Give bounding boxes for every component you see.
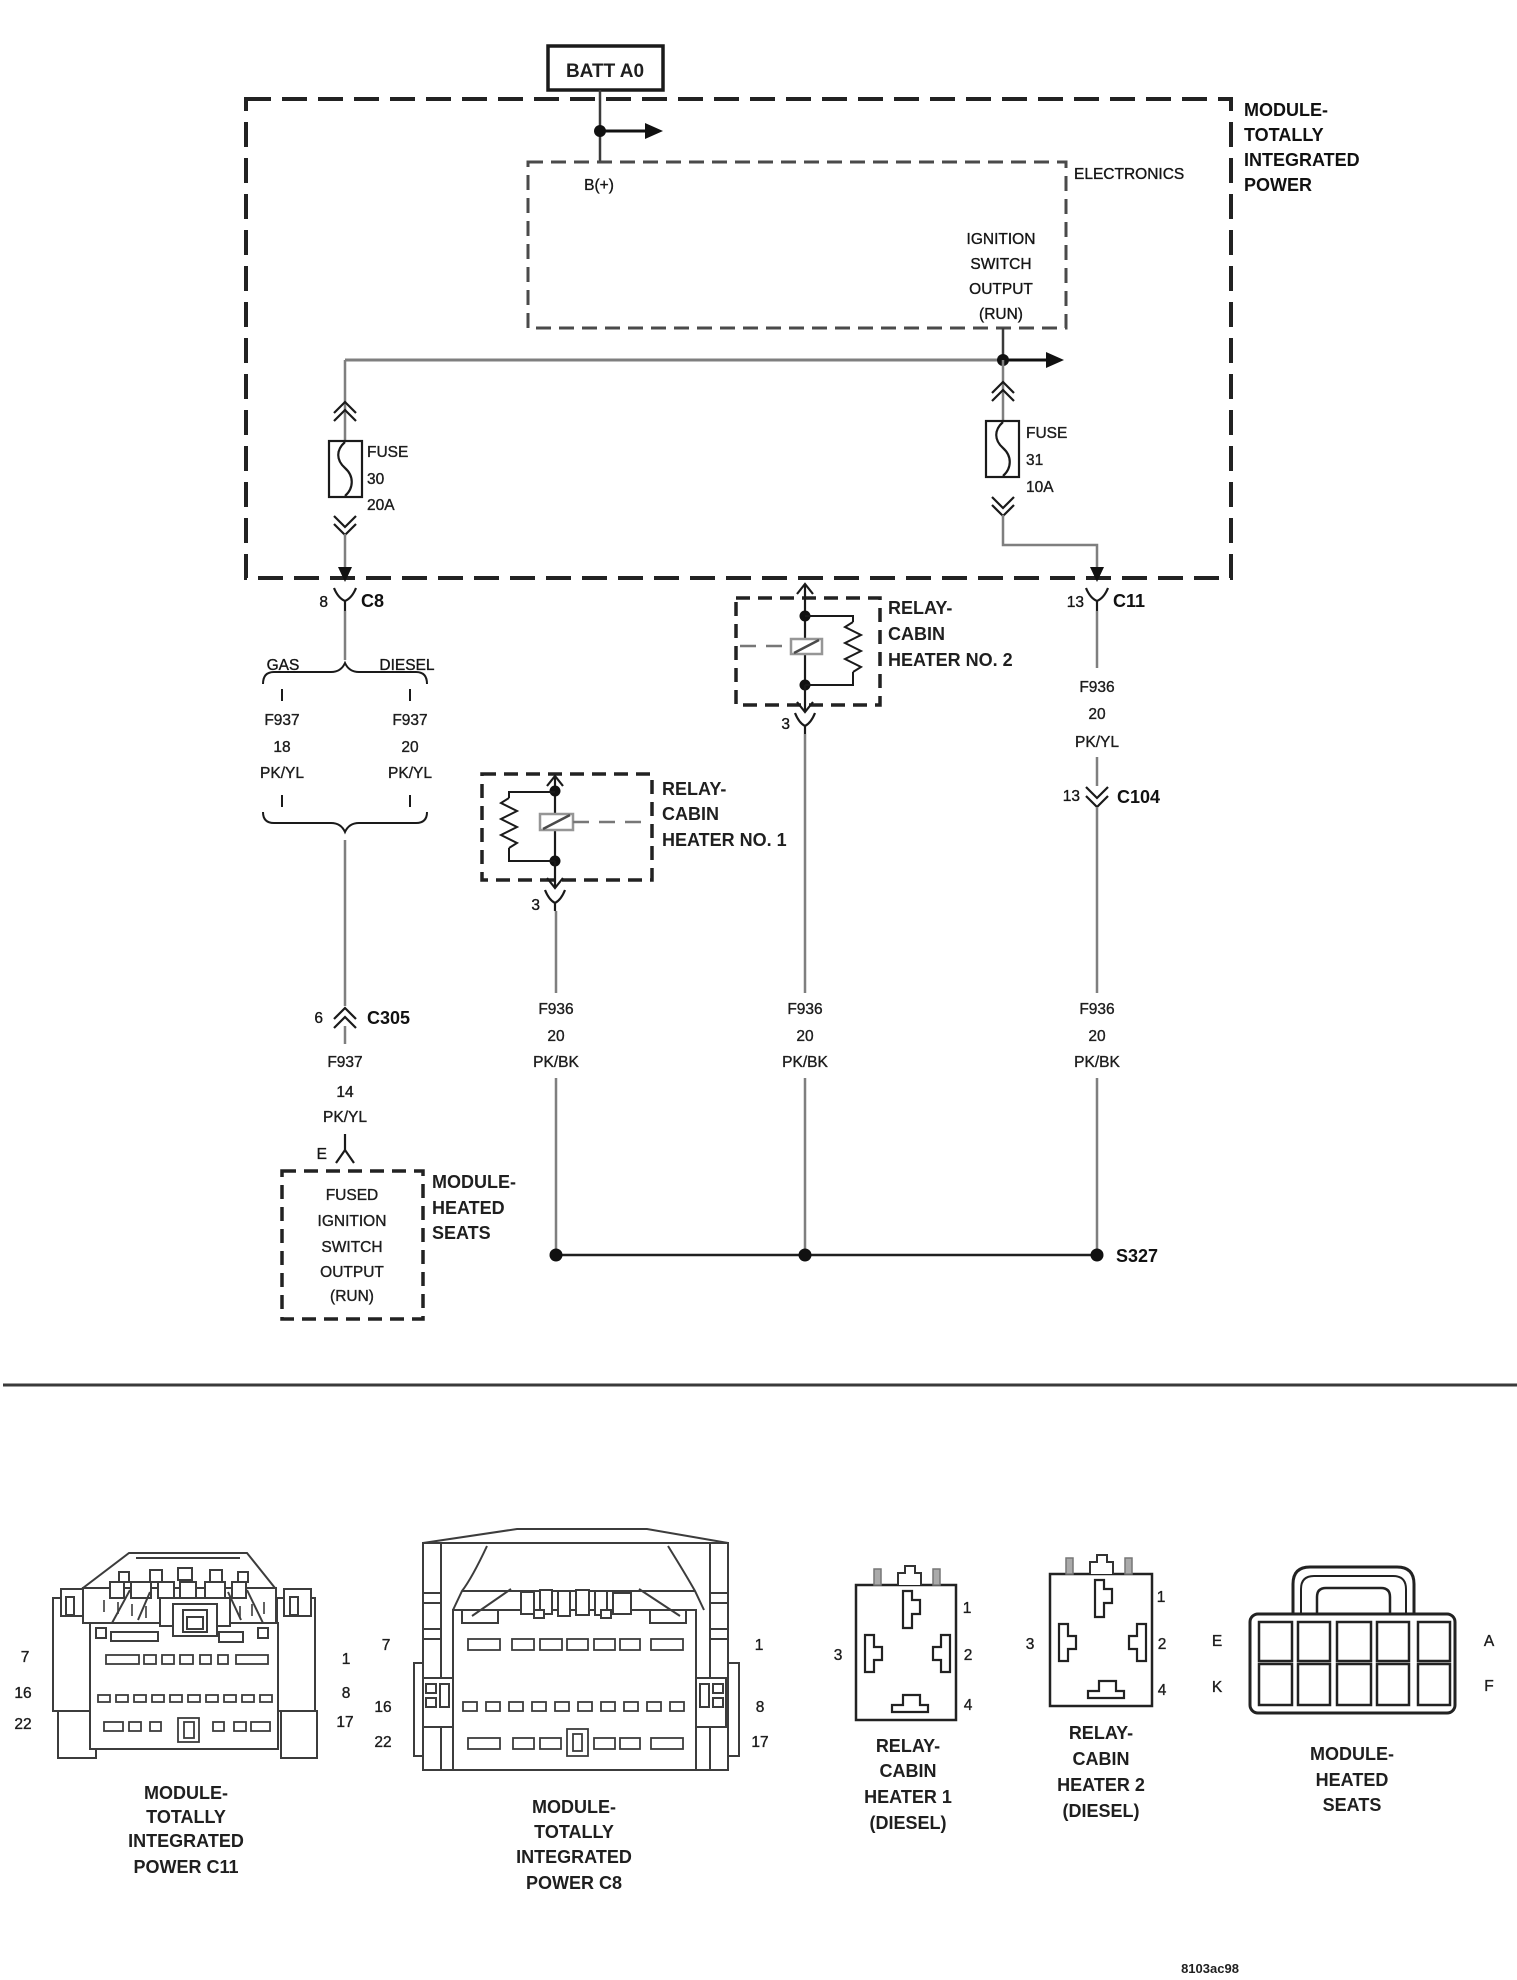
wire label F936 20 PK/BK (C104 leg) [1074, 1001, 1120, 1071]
relay 2 arrow up [797, 584, 813, 616]
svg-text:7: 7 [382, 1637, 391, 1654]
relay 2 connector pin 3 [781, 713, 815, 734]
svg-text:31: 31 [1026, 452, 1043, 469]
relay 1 connector pin 3 [531, 890, 565, 914]
value label FUSE 30 20A [367, 444, 408, 514]
chevron connector below fuse 31 [992, 497, 1014, 516]
svg-text:20: 20 [401, 739, 419, 756]
svg-text:POWER C11: POWER C11 [133, 1857, 238, 1877]
svg-text:RELAY-: RELAY- [1069, 1723, 1133, 1743]
separator line between sections [3, 1384, 1517, 1387]
svg-text:(DIESEL): (DIESEL) [869, 1813, 946, 1833]
svg-text:3: 3 [834, 1647, 843, 1664]
svg-text:PK/BK: PK/BK [533, 1054, 579, 1071]
caption RELAY-CABIN HEATER 1 (DIESEL) [864, 1736, 952, 1833]
svg-text:PK/YL: PK/YL [323, 1109, 367, 1126]
wire label F936 20 PK/BK (relay 2 leg) [782, 1001, 828, 1071]
connector view MODULE-TOTALLY INTEGRATED POWER C11 [53, 1553, 317, 1758]
fuse 31 [986, 421, 1019, 477]
module TIPM dashed box [246, 99, 1231, 578]
svg-text:HEATED: HEATED [432, 1198, 505, 1218]
caption MODULE-TOTALLY INTEGRATED POWER C8 [516, 1797, 632, 1893]
svg-text:8: 8 [756, 1699, 765, 1716]
relay 1 arrow down [547, 861, 563, 888]
wire fuse 30 to C8 [344, 534, 347, 574]
connector C8 pin 8 [319, 588, 384, 611]
svg-text:TOTALLY: TOTALLY [146, 1807, 226, 1827]
electronics dashed box [528, 162, 1066, 328]
svg-text:RELAY-: RELAY- [662, 779, 726, 799]
svg-text:6: 6 [314, 1010, 323, 1027]
fused ignition switch output dashed box [282, 1171, 423, 1319]
svg-text:CABIN: CABIN [880, 1761, 937, 1781]
svg-text:INTEGRATED: INTEGRATED [516, 1847, 632, 1867]
svg-text:INTEGRATED: INTEGRATED [128, 1831, 244, 1851]
connector view MODULE-HEATED SEATS [1250, 1567, 1455, 1713]
label RELAY-CABIN HEATER NO. 1 [662, 779, 787, 850]
svg-text:F937: F937 [327, 1054, 362, 1071]
splice bus wire [556, 1254, 1097, 1257]
label FUSED IGNITION SWITCH OUTPUT (RUN) [318, 1187, 387, 1305]
svg-text:PK/YL: PK/YL [388, 765, 432, 782]
caption RELAY-CABIN HEATER 2 (DIESEL) [1057, 1723, 1145, 1821]
svg-text:SWITCH: SWITCH [321, 1239, 382, 1256]
svg-text:16: 16 [14, 1685, 31, 1702]
wire C104 leg to splice [1096, 1078, 1099, 1255]
relay 1 junction bottom [550, 856, 561, 867]
svg-text:IGNITION: IGNITION [967, 231, 1036, 248]
svg-text:SEATS: SEATS [1323, 1795, 1382, 1815]
wire label F936 20 PK/BK (relay 1 leg) [533, 1001, 579, 1071]
svg-text:MODULE-: MODULE- [1244, 100, 1328, 120]
svg-text:E: E [1212, 1633, 1222, 1650]
wire fuse 31 to C11 [1003, 515, 1097, 574]
chevron connector above fuse 30 [334, 402, 356, 421]
svg-text:13: 13 [1067, 594, 1084, 611]
svg-text:(RUN): (RUN) [979, 306, 1023, 323]
label MODULE-TOTALLY INTEGRATED POWER [1244, 100, 1360, 195]
tick gas wire lower [281, 795, 283, 807]
svg-text:4: 4 [964, 1697, 973, 1714]
svg-text:20A: 20A [367, 497, 395, 514]
svg-text:16: 16 [374, 1699, 391, 1716]
svg-text:4: 4 [1158, 1682, 1167, 1699]
svg-text:1: 1 [755, 1637, 764, 1654]
svg-text:HEATER NO. 1: HEATER NO. 1 [662, 830, 787, 850]
svg-text:HEATED: HEATED [1316, 1770, 1389, 1790]
relay 1 junction top [550, 786, 561, 797]
svg-text:PK/YL: PK/YL [260, 765, 304, 782]
battery feed box BATT A0 [548, 46, 663, 90]
svg-text:8103ac98: 8103ac98 [1181, 1961, 1239, 1976]
value label FUSE 31 10A [1026, 425, 1067, 496]
svg-text:F937: F937 [392, 712, 427, 729]
svg-text:E: E [317, 1146, 327, 1163]
svg-text:RELAY-: RELAY- [876, 1736, 940, 1756]
svg-text:20: 20 [1088, 706, 1106, 723]
svg-text:INTEGRATED: INTEGRATED [1244, 150, 1360, 170]
svg-text:MODULE-: MODULE- [1310, 1744, 1394, 1764]
svg-text:1: 1 [1157, 1589, 1166, 1606]
label RELAY-CABIN HEATER NO. 2 [888, 598, 1013, 670]
connector pin E into heated seats module [317, 1134, 354, 1163]
pin labels relay cabin heater 1 [834, 1600, 973, 1714]
pin labels C8 connector [374, 1637, 768, 1751]
svg-text:MODULE-: MODULE- [144, 1783, 228, 1803]
svg-text:SWITCH: SWITCH [970, 256, 1031, 273]
relay 2 coil branch wire [804, 616, 806, 685]
chevron connector above fuse 31 [992, 382, 1014, 401]
svg-text:TOTALLY: TOTALLY [1244, 125, 1324, 145]
svg-text:20: 20 [547, 1028, 565, 1045]
svg-text:17: 17 [751, 1734, 768, 1751]
brace split GAS/DIESEL [263, 663, 427, 684]
wire label F936 20 PK/YL [1075, 679, 1119, 751]
svg-text:CABIN: CABIN [888, 624, 945, 644]
svg-text:3: 3 [531, 897, 540, 914]
svg-text:(DIESEL): (DIESEL) [1062, 1801, 1139, 1821]
svg-text:HEATER NO. 2: HEATER NO. 2 [888, 650, 1013, 670]
wire label F937 20 PK/YL (diesel) [388, 712, 432, 782]
svg-text:22: 22 [14, 1716, 31, 1733]
splice junction left [550, 1249, 563, 1262]
junction ignition feed [997, 354, 1009, 366]
wire relay 1 leg to splice [555, 1078, 558, 1255]
svg-text:20: 20 [1088, 1028, 1106, 1045]
caption MODULE-HEATED SEATS [1310, 1744, 1394, 1815]
connector view RELAY-CABIN HEATER 2 [1050, 1555, 1152, 1706]
arrow off-page right from battery junction [600, 123, 663, 139]
brace merge below [263, 812, 427, 832]
arrow off-page right from ignition junction [1003, 352, 1064, 368]
connector C11 pin 13 [1067, 588, 1145, 611]
tick diesel wire lower [409, 795, 411, 807]
svg-text:CABIN: CABIN [1073, 1749, 1130, 1769]
connector C305 pin 6 [314, 1008, 410, 1044]
svg-text:18: 18 [273, 739, 290, 756]
svg-text:HEATER 1: HEATER 1 [864, 1787, 952, 1807]
svg-text:7: 7 [21, 1649, 30, 1666]
svg-text:F936: F936 [538, 1001, 573, 1018]
svg-text:PK/YL: PK/YL [1075, 734, 1119, 751]
svg-text:IGNITION: IGNITION [318, 1213, 387, 1230]
wire horizontal ignition feed [345, 359, 1003, 362]
svg-text:PK/BK: PK/BK [1074, 1054, 1120, 1071]
connector C104 pin 13 [1063, 787, 1160, 807]
svg-text:30: 30 [367, 471, 385, 488]
svg-text:2: 2 [1158, 1636, 1167, 1653]
wire relay 2 leg to splice [804, 1078, 807, 1255]
svg-text:22: 22 [374, 1734, 391, 1751]
label IGNITION SWITCH OUTPUT (RUN) [967, 231, 1036, 323]
svg-text:F: F [1484, 1678, 1493, 1695]
svg-text:3: 3 [1026, 1636, 1035, 1653]
wire BATT A0 to electronics B(+) [599, 90, 602, 162]
relay 2 junction bottom [800, 680, 811, 691]
svg-text:OUTPUT: OUTPUT [969, 281, 1033, 298]
relay 1 arrow up [547, 776, 563, 791]
relay cabin heater no.1 dashed box [482, 774, 652, 880]
svg-text:13: 13 [1063, 788, 1080, 805]
tick gas wire [281, 689, 283, 701]
svg-text:3: 3 [781, 716, 790, 733]
wire down to fuse 30 [344, 360, 347, 441]
chevron connector below fuse 30 [334, 516, 356, 535]
wire relay 2 down [804, 734, 807, 993]
svg-text:20: 20 [796, 1028, 814, 1045]
svg-text:TOTALLY: TOTALLY [534, 1822, 614, 1842]
wire junction down to fuse 31 [1002, 360, 1005, 421]
svg-text:ELECTRONICS: ELECTRONICS [1074, 166, 1184, 183]
svg-text:S327: S327 [1116, 1246, 1158, 1266]
wire C11 down [1096, 611, 1099, 668]
relay cabin heater no.2 dashed box [736, 598, 880, 705]
svg-text:C305: C305 [367, 1008, 410, 1028]
svg-text:F936: F936 [1079, 679, 1114, 696]
tick diesel wire [409, 689, 411, 701]
svg-text:10A: 10A [1026, 479, 1054, 496]
wire label F937 14 PK/YL [323, 1054, 367, 1126]
svg-text:B(+): B(+) [584, 177, 614, 194]
svg-text:F937: F937 [264, 712, 299, 729]
svg-text:FUSE: FUSE [1026, 425, 1067, 442]
svg-text:1: 1 [342, 1651, 351, 1668]
pin labels heated seats connector [1212, 1633, 1495, 1696]
wire electronics output down to junction [1002, 328, 1005, 360]
svg-text:BATT A0: BATT A0 [566, 61, 644, 82]
connector view RELAY-CABIN HEATER 1 [856, 1566, 956, 1720]
svg-text:8: 8 [342, 1685, 351, 1702]
wire C104 down [1096, 807, 1099, 993]
svg-text:C8: C8 [361, 591, 384, 611]
junction on battery wire [594, 125, 606, 137]
svg-text:POWER C8: POWER C8 [526, 1873, 622, 1893]
caption MODULE-TOTALLY INTEGRATED POWER C11 [128, 1783, 244, 1877]
relay 1 coil branch wire [554, 791, 556, 861]
svg-text:RELAY-: RELAY- [888, 598, 952, 618]
svg-text:F936: F936 [1079, 1001, 1114, 1018]
svg-text:HEATER 2: HEATER 2 [1057, 1775, 1145, 1795]
svg-text:14: 14 [336, 1084, 354, 1101]
fuse 30 [329, 441, 362, 497]
svg-text:SEATS: SEATS [432, 1223, 491, 1243]
svg-text:8: 8 [319, 594, 328, 611]
pin labels relay cabin heater 2 [1026, 1589, 1167, 1699]
svg-text:K: K [1212, 1679, 1223, 1696]
svg-text:A: A [1484, 1633, 1495, 1650]
wire C8 down to split [344, 611, 347, 660]
pin labels C11 connector [14, 1649, 353, 1733]
relay 2 arrow down [797, 685, 813, 712]
splice junction middle [799, 1249, 812, 1262]
svg-text:C104: C104 [1117, 787, 1160, 807]
svg-text:PK/BK: PK/BK [782, 1054, 828, 1071]
wire merge down to C305 [344, 840, 347, 1006]
svg-text:POWER: POWER [1244, 175, 1312, 195]
relay 2 resistor [805, 616, 861, 685]
svg-text:FUSE: FUSE [367, 444, 408, 461]
arrow into module border at C11 [1090, 567, 1104, 582]
label MODULE-HEATED SEATS [432, 1172, 516, 1243]
svg-text:17: 17 [336, 1714, 353, 1731]
relay 2 coil [740, 639, 822, 654]
svg-text:F936: F936 [787, 1001, 822, 1018]
wire relay 1 down [555, 911, 558, 993]
wire to C104 [1096, 757, 1099, 786]
relay 1 coil [540, 814, 648, 830]
arrow into module border at C8 [338, 567, 352, 582]
wire label F937 18 PK/YL (gas) [260, 712, 304, 782]
svg-text:2: 2 [964, 1647, 973, 1664]
svg-text:MODULE-: MODULE- [532, 1797, 616, 1817]
svg-text:OUTPUT: OUTPUT [320, 1264, 384, 1281]
svg-text:(RUN): (RUN) [330, 1288, 374, 1305]
connector view MODULE-TOTALLY INTEGRATED POWER C8 [414, 1529, 739, 1770]
svg-text:1: 1 [963, 1600, 972, 1617]
svg-text:C11: C11 [1113, 591, 1145, 611]
svg-text:MODULE-: MODULE- [432, 1172, 516, 1192]
svg-text:FUSED: FUSED [326, 1187, 379, 1204]
splice junction S327 [1091, 1249, 1104, 1262]
relay 1 resistor [501, 792, 555, 861]
svg-text:CABIN: CABIN [662, 804, 719, 824]
relay 2 junction top [800, 611, 811, 622]
